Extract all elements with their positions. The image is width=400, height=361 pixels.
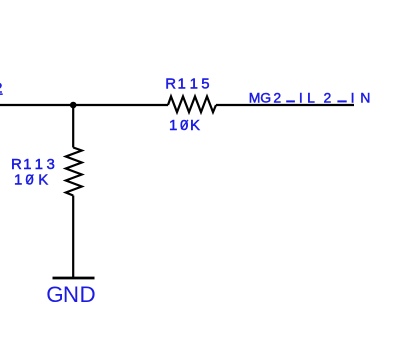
svg-text:10K: 10K xyxy=(14,172,48,189)
node junction dot xyxy=(70,102,77,109)
wire left segment to junction xyxy=(0,104,73,106)
underscore 2 of net label xyxy=(337,100,346,102)
svg-text:2: 2 xyxy=(0,79,3,95)
svg-text:MG2 IL2 IN: MG2 IL2 IN xyxy=(249,90,371,106)
wire junction down to R113 xyxy=(72,105,74,148)
wire R115 right lead to net label xyxy=(216,104,354,106)
slashed zero of R115 value xyxy=(181,120,188,129)
resistor R115 body (horizontal zigzag) xyxy=(168,97,216,113)
wire junction to R115 left lead xyxy=(73,104,168,106)
slashed zero of R113 value xyxy=(27,174,34,183)
svg-text:GND: GND xyxy=(46,282,95,307)
resistor R113 body (vertical zigzag) xyxy=(66,148,82,196)
ground bar xyxy=(53,277,95,280)
partial underscore at left edge xyxy=(0,93,3,95)
wire R113 bottom lead to ground xyxy=(72,196,74,279)
underscore 1 of net label xyxy=(286,100,295,102)
